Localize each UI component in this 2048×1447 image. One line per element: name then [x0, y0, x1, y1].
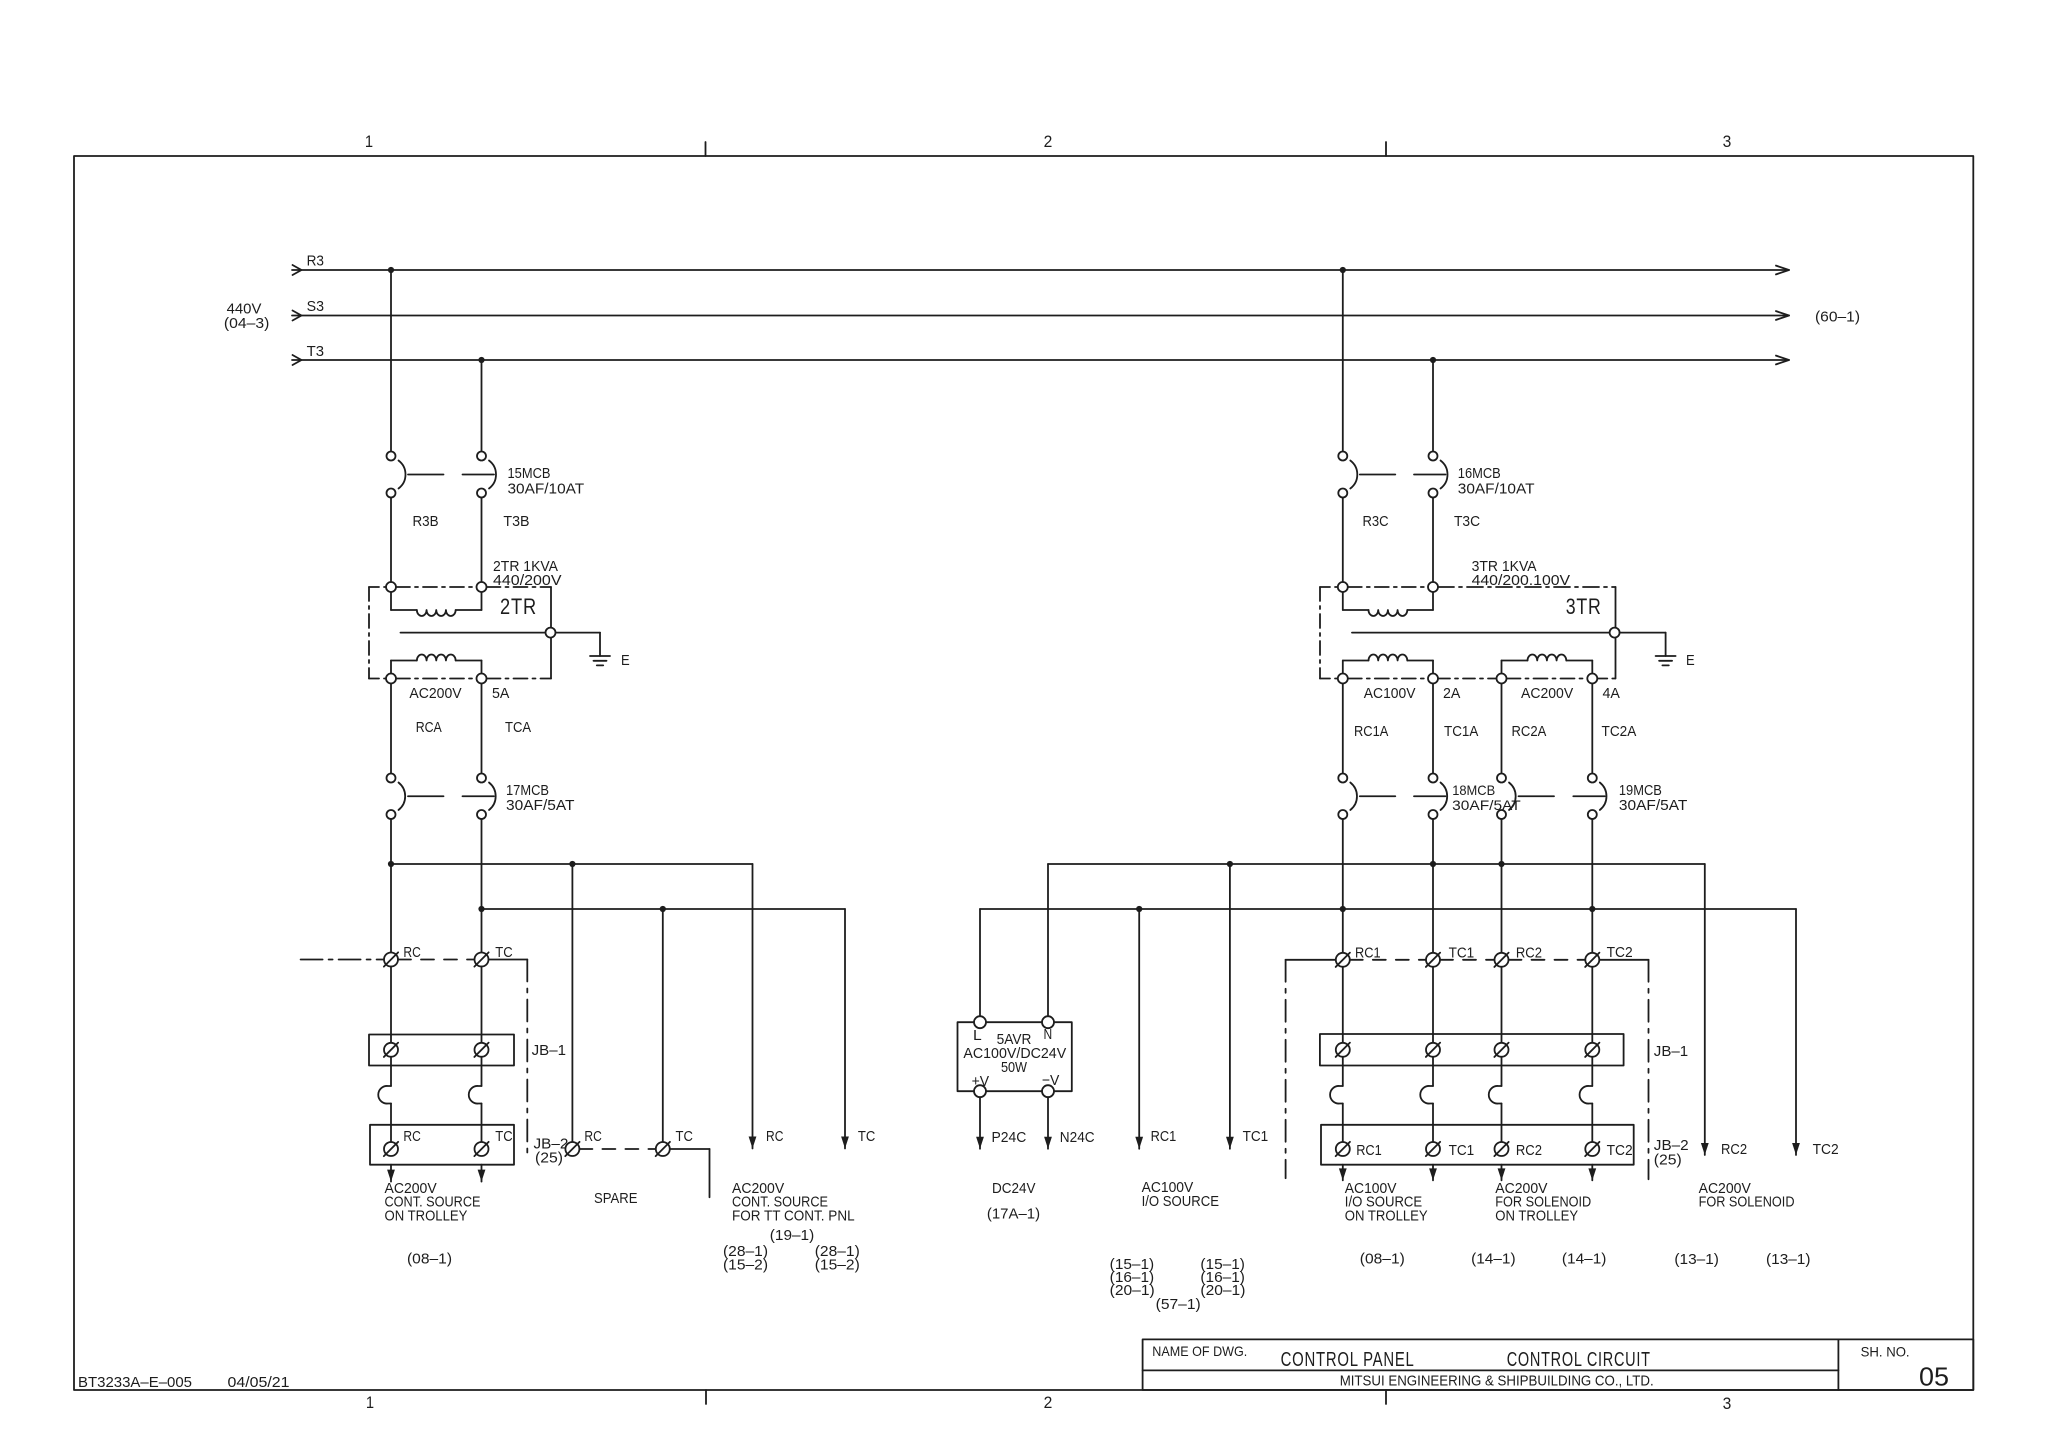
- wire TC2A: [1591, 684, 1593, 774]
- svg-text:FOR SOLENOID: FOR SOLENOID: [1699, 1194, 1795, 1211]
- node TCA / row2 junction: [478, 906, 484, 912]
- svg-text:N24C: N24C: [1060, 1129, 1095, 1146]
- wire JB boundary dash-dot (left): [526, 960, 528, 1153]
- wire JB-1 TC to drip loop: [481, 1057, 483, 1086]
- label 15MCB 30AF/10AT: [508, 465, 585, 498]
- label 2TR 1KVA 440/200V: [493, 558, 562, 589]
- terminal TC2: [1585, 953, 1599, 967]
- svg-text:RC: RC: [766, 1128, 784, 1145]
- wire 2TR center tap: [401, 632, 546, 634]
- label 440V (04-3) source: [224, 301, 270, 333]
- svg-text:S3: S3: [307, 298, 324, 315]
- terminal 5AVR N: [1042, 1016, 1054, 1028]
- connector drip loop TC: [469, 1086, 482, 1104]
- wire TC2A to terminal TC2: [1591, 819, 1593, 953]
- terminal JB-1 RC: [384, 1043, 398, 1057]
- svg-text:(08–1): (08–1): [407, 1251, 452, 1268]
- node R3 tap right: [1340, 267, 1346, 273]
- svg-text:RC2: RC2: [1721, 1141, 1747, 1158]
- svg-text:TC: TC: [676, 1128, 694, 1145]
- wire distribution row 1 (right): [1048, 864, 1705, 1016]
- svg-text:TC2: TC2: [1607, 944, 1633, 961]
- terminal JB-1 TC2: [1585, 1043, 1599, 1057]
- wire drip loop to JB-2 RC1: [1342, 1104, 1344, 1143]
- terminal RC1: [1336, 953, 1350, 967]
- label (15-1)(16-1)(20-1) first: [1110, 1256, 1155, 1299]
- wire T3 drop to 16MCB: [1432, 360, 1434, 452]
- svg-text:E: E: [1686, 652, 1695, 669]
- label 16MCB 30AF/10AT: [1458, 465, 1535, 498]
- svg-text:ON TROLLEY: ON TROLLEY: [1345, 1208, 1428, 1225]
- wire dashed RC2-TC2 link: [1509, 959, 1586, 961]
- label (15-1)(16-1)(20-1) second: [1200, 1256, 1245, 1299]
- svg-text:RC: RC: [584, 1128, 602, 1145]
- svg-text:TC2: TC2: [1607, 1142, 1633, 1159]
- transformer 3TR secondary winding 1: [1343, 655, 1433, 674]
- svg-text:(20–1): (20–1): [1110, 1282, 1155, 1299]
- transformer 2TR primary winding: [391, 592, 482, 616]
- wire distribution row 2 (right): [980, 909, 1796, 1016]
- wire T3C: [1432, 498, 1434, 583]
- ground E (3TR): [1656, 656, 1676, 665]
- label (28-1)(15-2) second: [815, 1243, 860, 1274]
- zone tick bottom left: [705, 1390, 707, 1404]
- connector drip loop TC2: [1580, 1086, 1593, 1104]
- wire JB-2 TC1 output arrow: [1429, 1165, 1437, 1181]
- ground E (2TR): [590, 656, 610, 665]
- wire TC1 output arrow: [1226, 864, 1234, 1149]
- svg-text:15MCB: 15MCB: [508, 465, 551, 482]
- wire T3 bus: [292, 355, 1789, 365]
- wire R3 drop to 16MCB: [1342, 270, 1344, 452]
- wire TC1A: [1432, 684, 1434, 774]
- svg-text:−V: −V: [1042, 1072, 1060, 1089]
- zone tick bottom right: [1385, 1390, 1387, 1404]
- svg-text:SPARE: SPARE: [594, 1190, 638, 1207]
- wire RCA: [390, 684, 392, 774]
- svg-text:RC1: RC1: [1151, 1128, 1177, 1145]
- svg-text:(04–3): (04–3): [224, 315, 270, 332]
- svg-text:5A: 5A: [492, 685, 509, 702]
- label JB-2 (25) right: [1654, 1137, 1689, 1169]
- svg-text:P24C: P24C: [992, 1129, 1027, 1146]
- wire JB-1 RC2 to drip loop: [1501, 1057, 1503, 1086]
- node TC2A / row2 junction: [1589, 906, 1595, 912]
- terminal 5AVR L: [974, 1016, 986, 1028]
- svg-text:(15–2): (15–2): [723, 1257, 768, 1274]
- terminal 3TR primary left: [1338, 582, 1348, 592]
- transformer 3TR secondary winding 2: [1502, 655, 1593, 674]
- terminal JB-1 RC2: [1494, 1043, 1508, 1057]
- svg-text:4A: 4A: [1603, 685, 1620, 702]
- svg-text:RC: RC: [403, 1128, 421, 1145]
- terminal 3TR secondary1 right: [1428, 674, 1438, 684]
- svg-text:3TR: 3TR: [1566, 594, 1602, 619]
- label 3TR 1KVA 440/200.100V: [1472, 558, 1571, 589]
- junction box JB-2 (left): [370, 1125, 514, 1165]
- terminal JB-2 TC1: [1426, 1142, 1440, 1156]
- terminal 2TR secondary left: [386, 674, 396, 684]
- svg-text:NAME OF DWG.: NAME OF DWG.: [1152, 1343, 1247, 1359]
- wire RC1A: [1342, 684, 1344, 774]
- svg-text:T3C: T3C: [1454, 513, 1480, 530]
- wire R3B: [390, 498, 392, 583]
- node TC1A / row1 junction: [1430, 861, 1436, 867]
- wire JB-1 TC1 to drip loop: [1432, 1057, 1434, 1086]
- svg-text:MITSUI ENGINEERING & SHIPBUILD: MITSUI ENGINEERING & SHIPBUILDING CO., L…: [1340, 1373, 1654, 1390]
- wire P24C output arrow: [976, 1097, 984, 1149]
- power supply 5AVR: [958, 1022, 1072, 1091]
- svg-text:2: 2: [1044, 1393, 1053, 1412]
- svg-text:18MCB: 18MCB: [1452, 782, 1495, 798]
- wire T3B: [481, 498, 483, 583]
- wire S3 bus: [292, 311, 1789, 321]
- svg-text:(17A–1): (17A–1): [987, 1206, 1040, 1223]
- wire RC1A to terminal RC1: [1342, 819, 1344, 953]
- svg-text:(20–1): (20–1): [1200, 1282, 1245, 1299]
- svg-text:30AF/5AT: 30AF/5AT: [506, 797, 575, 814]
- node row1 to TC1 arrow: [1227, 861, 1233, 867]
- wire TC to JB-1: [481, 967, 483, 1043]
- svg-text:AC200V: AC200V: [1521, 685, 1573, 702]
- wire JB-2 RC output arrow: [387, 1165, 395, 1182]
- svg-text:TC2: TC2: [1813, 1141, 1839, 1158]
- wire TC spare stub: [670, 1149, 710, 1197]
- svg-text:TC: TC: [495, 1128, 513, 1145]
- svg-text:ON TROLLEY: ON TROLLEY: [1495, 1208, 1578, 1225]
- node RC1A / row2 junction: [1340, 906, 1346, 912]
- svg-text:(14–1): (14–1): [1471, 1251, 1516, 1268]
- wire dashed TC1-RC2 link: [1440, 959, 1495, 961]
- breaker 18MCB: [1338, 774, 1447, 820]
- zone tick top right: [1385, 142, 1387, 156]
- svg-text:30AF/10AT: 30AF/10AT: [1458, 481, 1535, 498]
- svg-text:N: N: [1044, 1026, 1053, 1043]
- svg-text:1: 1: [366, 1393, 374, 1412]
- connector drip loop TC1: [1420, 1086, 1433, 1104]
- wire TC1 to JB-1: [1432, 967, 1434, 1043]
- svg-text:RC1A: RC1A: [1354, 723, 1388, 740]
- svg-text:CONTROL PANEL: CONTROL PANEL: [1281, 1349, 1415, 1371]
- label AC200V CONT. SOURCE ON TROLLEY: [385, 1180, 481, 1225]
- svg-text:L: L: [973, 1027, 982, 1044]
- label 17MCB 30AF/5AT: [506, 782, 575, 814]
- svg-text:TC1: TC1: [1243, 1128, 1269, 1145]
- terminal 3TR center tap: [1610, 628, 1620, 638]
- terminal TC1: [1426, 953, 1440, 967]
- label AC100V I/O SOURCE ON TROLLEY: [1345, 1180, 1428, 1225]
- wire JB-1 RC to drip loop: [390, 1057, 392, 1086]
- svg-text:RC2: RC2: [1516, 1142, 1542, 1159]
- svg-text:TC1: TC1: [1449, 1142, 1475, 1159]
- connector drip loop RC1: [1330, 1086, 1343, 1104]
- wire JB-2 TC output arrow: [478, 1165, 486, 1182]
- label JB-2 (25) left: [534, 1136, 569, 1167]
- svg-text:SH. NO.: SH. NO.: [1861, 1344, 1910, 1360]
- wire TC2 to JB-1: [1591, 967, 1593, 1043]
- svg-text:TC: TC: [858, 1128, 876, 1145]
- svg-text:2A: 2A: [1443, 685, 1460, 702]
- wire distribution row 2 (left): [482, 908, 846, 910]
- wire R3 drop to 15MCB: [390, 270, 392, 452]
- svg-text:AC200V: AC200V: [409, 685, 461, 702]
- svg-text:ON TROLLEY: ON TROLLEY: [385, 1208, 468, 1225]
- wire dashed RC-TC link (JB-2 25): [579, 1148, 655, 1150]
- svg-text:CONTROL CIRCUIT: CONTROL CIRCUIT: [1507, 1349, 1651, 1371]
- wire TCA: [481, 684, 483, 774]
- terminal 2TR primary right: [477, 582, 487, 592]
- terminal RC: [384, 952, 398, 966]
- junction box JB-1 (left): [369, 1035, 514, 1066]
- wire TC to JB boundary: [489, 959, 528, 961]
- svg-text:05: 05: [1919, 1362, 1949, 1392]
- connector drip loop RC: [378, 1086, 391, 1104]
- svg-text:R3B: R3B: [413, 513, 439, 530]
- svg-text:30AF/10AT: 30AF/10AT: [508, 481, 585, 498]
- svg-text:(14–1): (14–1): [1562, 1251, 1607, 1268]
- terminal 5AVR -V: [1042, 1085, 1054, 1097]
- transformer 2TR secondary winding: [391, 655, 482, 674]
- connector drip loop RC2: [1489, 1086, 1502, 1104]
- wire TC1A to terminal TC1: [1432, 819, 1434, 953]
- terminal JB-2(25) RC: [565, 1142, 579, 1156]
- svg-text:2: 2: [1044, 132, 1053, 151]
- wire RC to JB-1: [390, 967, 392, 1043]
- svg-text:04/05/21: 04/05/21: [228, 1374, 290, 1391]
- terminal JB-2(25) TC: [656, 1142, 670, 1156]
- terminal JB-1 TC1: [1426, 1043, 1440, 1057]
- svg-text:E: E: [621, 652, 630, 669]
- node RC2A / row1 junction: [1498, 861, 1504, 867]
- terminal 3TR primary right: [1428, 582, 1438, 592]
- wire R3 bus: [292, 265, 1789, 275]
- svg-text:RCA: RCA: [416, 719, 442, 736]
- wire TCA to terminal TC: [481, 819, 483, 953]
- svg-text:(25): (25): [535, 1150, 563, 1167]
- svg-text:440/200.100V: 440/200.100V: [1472, 572, 1571, 589]
- wire drip loop to JB-2 TC2: [1591, 1104, 1593, 1143]
- wire JB boundary dash-dot (right outer): [1648, 960, 1650, 1180]
- label 19MCB 30AF/5AT: [1619, 782, 1688, 814]
- wire center tap to ground (2TR): [556, 633, 601, 656]
- wire drip loop to JB-2 TC1: [1432, 1104, 1434, 1143]
- wire RCA to terminal RC: [390, 819, 392, 953]
- svg-text:16MCB: 16MCB: [1458, 465, 1501, 482]
- svg-text:440/200V: 440/200V: [493, 572, 562, 589]
- svg-text:50W: 50W: [1001, 1059, 1028, 1076]
- terminal 3TR secondary2 left: [1497, 674, 1507, 684]
- terminal 2TR primary left: [386, 582, 396, 592]
- svg-text:30AF/5AT: 30AF/5AT: [1452, 797, 1521, 813]
- svg-text:(60–1): (60–1): [1815, 309, 1860, 326]
- terminal 5AVR +V: [974, 1085, 986, 1097]
- node row1 to JB-2 RC drop: [569, 861, 575, 867]
- svg-text:RC: RC: [403, 944, 421, 961]
- zone tick top left: [705, 142, 707, 156]
- junction box JB-2 (right): [1321, 1125, 1634, 1165]
- junction box JB-1 (right): [1320, 1034, 1624, 1066]
- svg-text:R3: R3: [307, 253, 324, 270]
- wire JB-2 RC1 output arrow: [1339, 1165, 1347, 1181]
- svg-text:1: 1: [365, 132, 373, 151]
- wire R3C: [1342, 498, 1344, 583]
- svg-text:RC2A: RC2A: [1512, 723, 1547, 740]
- terminal TC: [474, 952, 488, 966]
- label 18MCB 30AF/5AT: [1452, 782, 1521, 813]
- wire RC1 to JB-1: [1342, 967, 1344, 1043]
- breaker 16MCB: [1338, 452, 1447, 498]
- svg-text:TC: TC: [495, 944, 513, 961]
- label DC24V (17A-1): [987, 1180, 1040, 1223]
- svg-text:R3C: R3C: [1363, 513, 1389, 530]
- svg-text:3: 3: [1723, 1394, 1732, 1413]
- svg-text:(13–1): (13–1): [1766, 1251, 1811, 1268]
- wire N24C output arrow: [1044, 1097, 1052, 1149]
- wire JB boundary corner to RC1: [1286, 959, 1336, 961]
- svg-text:TC2A: TC2A: [1602, 723, 1637, 740]
- node T3 tap right: [1430, 357, 1436, 363]
- svg-text:T3: T3: [307, 343, 324, 360]
- terminal RC2: [1494, 953, 1508, 967]
- terminal 3TR secondary2 right: [1587, 674, 1597, 684]
- svg-text:2TR: 2TR: [500, 594, 537, 619]
- label AC200V FOR SOLENOID ON TROLLEY: [1495, 1180, 1591, 1225]
- node RCA / row1 junction: [388, 861, 394, 867]
- node row2 to RC1 arrow: [1136, 906, 1142, 912]
- transformer 3TR primary winding: [1343, 592, 1433, 616]
- breaker 19MCB: [1497, 774, 1606, 820]
- svg-text:30AF/5AT: 30AF/5AT: [1619, 797, 1688, 814]
- svg-text:TCA: TCA: [505, 719, 531, 736]
- terminal JB-2 RC2: [1494, 1142, 1508, 1156]
- svg-text:(19–1): (19–1): [770, 1227, 815, 1244]
- wire TC2 to JB boundary: [1599, 959, 1648, 961]
- node T3 tap left: [478, 357, 484, 363]
- terminal JB-2 RC1: [1336, 1142, 1350, 1156]
- terminal JB-2 TC: [474, 1142, 488, 1156]
- wire RC2A to terminal RC2: [1501, 819, 1503, 953]
- wire JB boundary dash-dot (right inner): [1285, 960, 1287, 1178]
- terminal 3TR secondary1 left: [1338, 674, 1348, 684]
- wire drop to JB-2(25) TC: [662, 909, 664, 1142]
- wire RC2A: [1501, 684, 1503, 774]
- wire dashed RC-TC link: [398, 959, 475, 961]
- wire 3TR center tap: [1352, 632, 1610, 634]
- svg-text:(08–1): (08–1): [1360, 1251, 1405, 1268]
- label AC200V CONT. SOURCE FOR TT CONT. PNL: [732, 1180, 855, 1225]
- terminal JB-1 RC1: [1336, 1043, 1350, 1057]
- terminal 2TR secondary right: [477, 674, 487, 684]
- breaker 15MCB: [387, 452, 497, 498]
- wire RC2 output arrow: [1701, 864, 1709, 1155]
- wire JB-1 RC1 to drip loop: [1342, 1057, 1344, 1086]
- wire JB-2 RC2 output arrow: [1498, 1165, 1506, 1181]
- svg-text:(15–2): (15–2): [815, 1257, 860, 1274]
- svg-text:(57–1): (57–1): [1156, 1296, 1201, 1313]
- node R3 tap left: [388, 267, 394, 273]
- wire drop to JB-2(25) RC: [571, 864, 573, 1142]
- svg-text:FOR TT CONT. PNL: FOR TT CONT. PNL: [732, 1208, 855, 1225]
- wire distribution row 1 (left): [391, 863, 753, 865]
- terminal 2TR center tap: [546, 628, 556, 638]
- breaker 17MCB: [387, 774, 496, 820]
- svg-text:T3B: T3B: [503, 513, 529, 530]
- terminal JB-2 RC: [384, 1142, 398, 1156]
- svg-text:I/O SOURCE: I/O SOURCE: [1142, 1193, 1219, 1210]
- wire RC2 to JB-1: [1501, 967, 1503, 1043]
- terminal JB-2 TC2: [1585, 1142, 1599, 1156]
- wire drip loop to JB-2 RC2: [1501, 1104, 1503, 1143]
- terminal JB-1 TC: [474, 1043, 488, 1057]
- transformer 3TR enclosure: [1320, 587, 1616, 679]
- wire dash-dot lead-in to RC: [301, 959, 384, 961]
- svg-text:RC1: RC1: [1356, 1142, 1382, 1159]
- wire JB-2 TC2 output arrow: [1588, 1165, 1596, 1181]
- wire TC output arrow: [841, 909, 849, 1149]
- svg-text:3: 3: [1723, 132, 1732, 151]
- node row2 to JB-2 TC drop: [660, 906, 666, 912]
- transformer 2TR enclosure: [369, 587, 551, 679]
- svg-text:AC100V: AC100V: [1364, 685, 1416, 702]
- wire TC2 output arrow: [1792, 909, 1800, 1155]
- svg-text:BT3233A–E–005: BT3233A–E–005: [78, 1374, 192, 1391]
- svg-text:JB–1: JB–1: [532, 1042, 566, 1059]
- wire JB-1 TC2 to drip loop: [1591, 1057, 1593, 1086]
- wire dashed RC1-TC1 link: [1350, 959, 1426, 961]
- label (28-1)(15-2) first: [723, 1243, 768, 1274]
- wire T3 drop to 15MCB: [481, 360, 483, 452]
- wire drip loop to JB-2 RC: [390, 1104, 392, 1143]
- wire RC1 output arrow: [1135, 909, 1143, 1149]
- wire drip loop to JB-2 TC: [481, 1104, 483, 1143]
- svg-text:TC1A: TC1A: [1444, 723, 1478, 740]
- svg-text:(13–1): (13–1): [1674, 1251, 1719, 1268]
- wire RC output arrow: [749, 864, 757, 1149]
- svg-text:DC24V: DC24V: [992, 1180, 1036, 1197]
- title block frame: [1143, 1339, 1974, 1390]
- label AC100V I/O SOURCE: [1142, 1179, 1219, 1210]
- svg-text:(25): (25): [1654, 1152, 1682, 1169]
- label AC200V FOR SOLENOID: [1699, 1180, 1795, 1211]
- wire center tap to ground (3TR): [1620, 633, 1666, 656]
- label 5AVR AC100V/DC24V 50W: [963, 1031, 1066, 1076]
- svg-text:JB–1: JB–1: [1654, 1043, 1688, 1060]
- svg-text:+V: +V: [972, 1073, 990, 1090]
